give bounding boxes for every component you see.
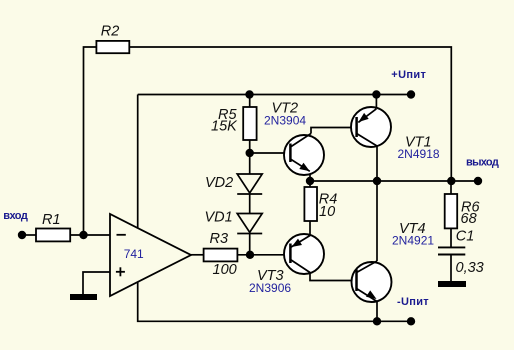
- node R1 / feedback junction: [79, 231, 87, 239]
- node VT1/VT4 collectors: [373, 177, 381, 185]
- node R5/VD2/VT2 base: [246, 149, 254, 157]
- wire R4 top: [309, 181, 311, 187]
- resistor R5: [243, 107, 256, 140]
- svg-text:0,33: 0,33: [456, 260, 484, 276]
- wire op-amp V+ pin to +U rail: [137, 95, 139, 229]
- node VT1 emitter on +U rail: [372, 90, 380, 98]
- node input terminal: [18, 231, 26, 239]
- diode VD1: [237, 214, 262, 234]
- wire VT2 base: [250, 152, 291, 154]
- node output terminal: [474, 177, 482, 185]
- resistor R2: [96, 41, 129, 53]
- node R6 / feedback: [447, 177, 455, 185]
- node VT2 emitter / R4 top: [306, 177, 314, 185]
- diode VD2: [237, 174, 262, 194]
- resistor R4: [304, 187, 317, 221]
- wire VT2 emitter to output row: [309, 171, 311, 181]
- wire VT2 collector to VT1 base: [311, 128, 357, 134]
- svg-text:VD1: VD1: [205, 210, 233, 226]
- wire R6 top: [450, 181, 452, 194]
- wire R5 top: [249, 95, 251, 108]
- wire plus input to ground: [83, 272, 110, 294]
- svg-text:-Uпит: -Uпит: [397, 296, 429, 308]
- svg-text:+Uпит: +Uпит: [391, 69, 426, 81]
- wire node VD2-VD1: [249, 194, 251, 214]
- svg-text:2N4918: 2N4918: [398, 147, 440, 161]
- ground at op-amp plus input: [70, 294, 97, 300]
- capacitor C1: [438, 247, 465, 254]
- wire R1 to op-amp minus input: [70, 234, 110, 236]
- svg-text:741: 741: [124, 247, 144, 261]
- transistor VT3 2N3906: [284, 234, 324, 274]
- wire R4 bottom to VT3 emitter: [309, 221, 311, 236]
- resistor R6: [445, 194, 458, 228]
- node R3/VD1/VT3 base: [246, 251, 254, 259]
- svg-text:2N3906: 2N3906: [249, 281, 291, 295]
- wire input terminal to R1: [22, 234, 36, 236]
- wire C1 to ground: [450, 255, 452, 281]
- wire R3 to VT3 base: [237, 254, 290, 256]
- svg-text:2N3904: 2N3904: [264, 113, 306, 127]
- node -U supply terminal: [407, 317, 415, 325]
- transistor VT1 2N4918: [351, 107, 391, 147]
- svg-text:выход: выход: [466, 156, 499, 168]
- svg-text:15K: 15K: [211, 119, 238, 135]
- wire op-amp output to R3: [191, 254, 204, 256]
- svg-text:VD2: VD2: [205, 175, 233, 191]
- wire VT3 collector to VT4 base: [310, 273, 357, 281]
- wire op-amp V- pin down to bottom rail: [138, 282, 411, 322]
- wire output row: [310, 180, 478, 182]
- wire VT4 emitter to bottom rail: [376, 302, 378, 322]
- svg-text:68: 68: [461, 211, 477, 227]
- transistor VT4 2N4921: [352, 261, 392, 302]
- svg-text:R3: R3: [210, 231, 229, 247]
- wire R2 right to output column: [129, 47, 451, 181]
- node +U supply terminal: [407, 90, 415, 98]
- svg-text:R2: R2: [101, 23, 120, 39]
- wire +U rail: [138, 94, 411, 96]
- wire R2 feedback left leg: [84, 47, 97, 235]
- wire VT4 collector to output row: [376, 181, 378, 261]
- node VT4 emitter on bottom rail: [373, 317, 381, 325]
- op-amp U1 741: [110, 214, 191, 296]
- svg-text:10: 10: [319, 204, 335, 220]
- svg-text:2N4921: 2N4921: [392, 234, 434, 248]
- resistor R1: [36, 229, 70, 242]
- wire R5 bottom to VD2: [249, 140, 251, 174]
- svg-text:вход: вход: [3, 210, 28, 222]
- ground below C1: [438, 281, 466, 287]
- transistor VT2 2N3904: [284, 134, 324, 176]
- svg-text:100: 100: [213, 262, 237, 278]
- wire VT1 emitter to +U rail: [375, 95, 377, 109]
- svg-text:R1: R1: [42, 212, 61, 228]
- svg-text:C1: C1: [456, 228, 475, 244]
- wire R6 bottom to C1: [450, 228, 452, 246]
- node R5 top on +U rail: [245, 90, 253, 98]
- wire VD1 to R3 node: [249, 234, 251, 255]
- wire VT1 collector to output row: [376, 146, 378, 181]
- resistor R3: [204, 249, 238, 262]
